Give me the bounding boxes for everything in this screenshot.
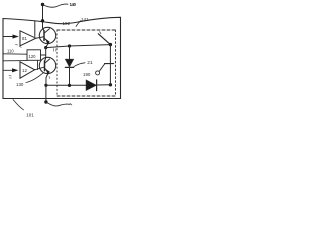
op-amp U2: [20, 62, 35, 78]
switch 190 blade: [100, 64, 105, 71]
svg-text:130: 130: [16, 82, 24, 87]
wire input to U2: [3, 69, 13, 71]
wire D1 anode: [69, 46, 71, 60]
node output: [44, 100, 47, 103]
wire bottom rail: [46, 84, 86, 86]
tick under U1: [16, 45, 22, 48]
tick near Q2 emitter: [48, 76, 51, 78]
wire left lower: [3, 60, 27, 62]
node A: [44, 46, 47, 49]
arrow into U1: [13, 35, 19, 39]
leader to label 141: [76, 21, 81, 27]
svg-text:101: 101: [26, 113, 34, 118]
wire top vertical: [42, 5, 44, 29]
wire left mid 110: [3, 53, 27, 55]
wire box 120 down: [37, 60, 39, 69]
leader to label 101: [13, 100, 24, 110]
svg-text:110: 110: [7, 49, 14, 54]
wire D1 cathode down: [69, 68, 71, 86]
leader to label 21: [74, 63, 85, 67]
svg-text:12: 12: [22, 68, 27, 73]
wire D2 to node B: [97, 84, 111, 86]
wire U1 output to Q1 base: [36, 37, 44, 38]
op-amp U1: [20, 31, 36, 46]
switch 190 contact circle: [96, 71, 100, 75]
transistor Q2: [39, 57, 55, 74]
dashed box 141 top: [57, 29, 116, 31]
border box 100: [3, 17, 121, 98]
wire wavy to label 140: [43, 4, 69, 7]
svg-text:102: 102: [63, 21, 71, 26]
node D1 bottom: [68, 84, 71, 87]
wire input to U1: [3, 36, 13, 38]
leader to label 130: [26, 73, 44, 83]
wire box 120 to node: [41, 54, 46, 56]
wire U2 output to Q2 base: [35, 67, 44, 70]
svg-text:21: 21: [87, 60, 93, 66]
wire switch pole vertical: [109, 45, 111, 85]
transistor Q1: [39, 27, 55, 44]
resistor box 120: [27, 50, 41, 61]
diode D1: [66, 59, 74, 67]
node S1: [109, 43, 112, 46]
tick end of output wavy: [70, 104, 72, 105]
wire node A to switch S1: [46, 45, 111, 48]
arrow into U2: [12, 68, 18, 72]
svg-text:140: 140: [70, 2, 77, 7]
tick under U2 arrow: [9, 76, 11, 79]
wire Q2 emitter down: [46, 73, 49, 102]
svg-text:81: 81: [22, 36, 27, 41]
wire node A to Q2 collector: [45, 48, 47, 58]
svg-text:120: 120: [29, 54, 37, 59]
diode D2: [86, 80, 96, 90]
dashed box 141 right: [115, 30, 117, 96]
node 140 dot: [41, 3, 44, 6]
switch S1 blade: [98, 34, 110, 45]
dashed box 141 bottom: [57, 95, 116, 97]
svg-text:141: 141: [81, 17, 89, 22]
wire Q1 emitter down: [46, 43, 49, 48]
tick near switch S1: [100, 32, 101, 34]
svg-text:190: 190: [83, 72, 91, 77]
switch 190 fixed bar: [105, 63, 114, 65]
node D1 top: [68, 44, 71, 47]
node junction on rail: [41, 19, 44, 22]
wire wavy output: [46, 102, 70, 106]
node bottom rail left: [44, 84, 47, 87]
node B: [109, 83, 112, 86]
dashed box 141 left: [56, 30, 58, 96]
wire stub U1 to rail: [34, 21, 36, 37]
tick near node A: [53, 49, 55, 52]
